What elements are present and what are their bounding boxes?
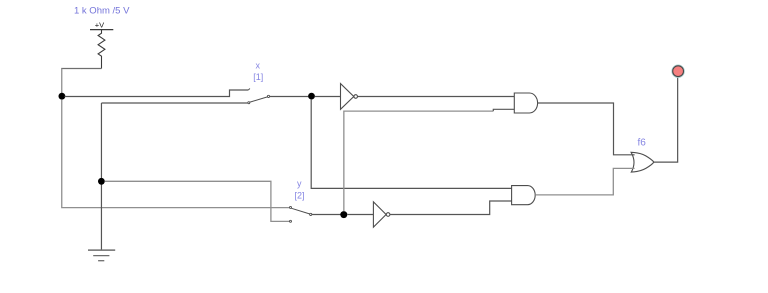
svg-text:1 k Ohm /5 V: 1 k Ohm /5 V [74,5,130,16]
wire: corner down to node A [61,69,63,97]
wire: node D up to AND U3 input B [344,111,493,211]
switch x blade (input 1, thrown to lower contact) [250,97,267,102]
svg-text:[2]: [2] [295,190,305,200]
wire: U1 output to AND U3 input A [358,96,515,98]
node A: supply net junction dot [59,93,66,100]
wire: node C down to AND U4 input A [311,100,511,189]
ground symbol [88,250,115,261]
OR gate f6 [631,152,654,172]
power supply +V [90,21,113,30]
node D: switch y output junction dot [340,211,347,218]
wire: node A to switch x upper throw (jog up at x=229.5) [65,90,249,97]
AND gate U4 (bottom) [512,186,536,205]
wire: ground net to switch x lower throw [101,102,247,104]
svg-text:x: x [256,61,261,71]
wire: OR f6 output to probe [654,77,678,162]
switch y blade (input 2, thrown to upper contact) [292,208,310,214]
wire: node D to inverter U2 input [347,214,373,216]
wire: resistor bottom to left corner [61,68,101,70]
node B: ground net junction dot [98,178,105,185]
wire: node C to inverter U1 input [315,96,341,98]
output probe (logic indicator, red) [672,65,684,77]
wire: jog into AND U3 input B [493,109,514,111]
svg-text:[1]: [1] [253,72,263,82]
wire: U4 output to OR f6 input B [535,168,634,195]
switch x lower throw contact [248,102,250,104]
svg-text:f6: f6 [638,138,647,149]
switch x common contact [267,95,269,97]
wire: node A down and right to switch y upper throw [62,100,290,208]
wire: switch y common to node D [312,214,341,216]
wire: switch x common to node C [270,96,309,98]
wire: ground riser [100,103,102,250]
svg-text:+V: +V [95,21,104,30]
label x [1] [253,61,263,82]
resistor R1 (1 k Ohm) [98,30,105,69]
svg-text:y: y [297,179,302,189]
node C: switch x output junction dot [308,93,315,100]
inverter U2 (NOT gate, bottom) [373,202,390,227]
switch x upper throw contact tick [248,89,250,91]
switch y common contact [310,213,312,215]
label y [2] [295,179,305,201]
switch y lower throw contact [290,220,292,222]
wire: node B to switch y lower throw [105,181,290,221]
inverter U1 (NOT gate, top) [341,84,358,110]
wire: U2 output to AND U4 input B [390,201,512,215]
wire: U3 output to OR f6 input A [538,103,635,155]
switch y upper throw contact [290,206,292,208]
AND gate U3 (top) [514,93,537,113]
